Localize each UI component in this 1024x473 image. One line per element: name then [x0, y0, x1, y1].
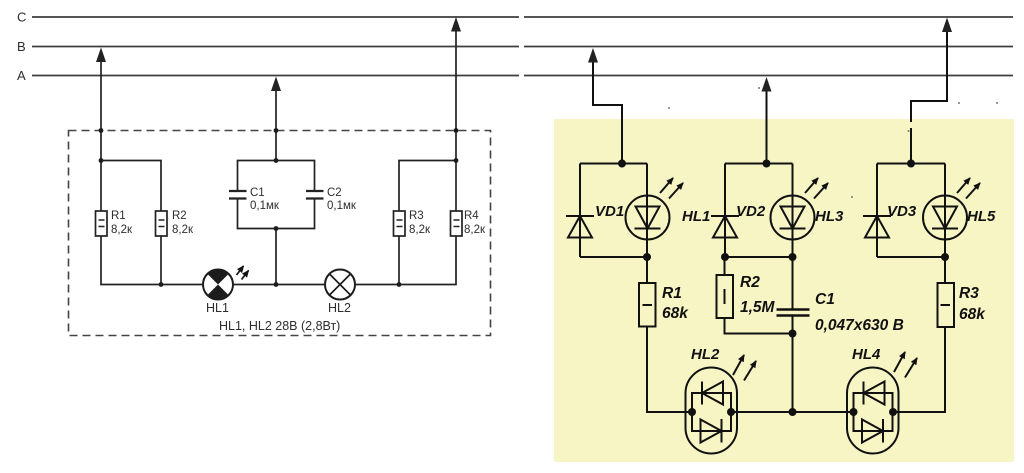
- svg-text:0,047x630 В: 0,047x630 В: [815, 317, 904, 334]
- wire HL3 branch: [792, 164, 794, 258]
- node dot feed 2: [763, 160, 771, 168]
- yellow panel of right schematic: [554, 119, 1014, 462]
- resistor R2 8,2k: [156, 211, 168, 236]
- dashed enclosure box: [69, 131, 491, 336]
- svg-text:R2: R2: [740, 274, 760, 291]
- svg-text:8,2к: 8,2к: [464, 224, 486, 236]
- arrowhead to phase C: [451, 17, 461, 32]
- wire bottom bus: [731, 411, 853, 413]
- wire top rail section 1: [580, 163, 647, 165]
- node dot HL2 right: [727, 408, 735, 416]
- wire phase B left: [32, 46, 519, 48]
- wire tap B phase (right): [593, 59, 622, 164]
- node dot C1 bus: [789, 408, 797, 416]
- arrowhead to phase B: [96, 48, 106, 63]
- wire phase C left: [32, 16, 519, 18]
- wire bottom rail section 3: [877, 256, 945, 258]
- wire R1 branch vertical: [100, 161, 102, 212]
- diode VD1: [566, 216, 594, 238]
- svg-text:C1: C1: [250, 187, 265, 199]
- svg-text:0,1мк: 0,1мк: [327, 200, 357, 212]
- svg-text:C1: C1: [815, 291, 835, 308]
- svg-text:C2: C2: [327, 187, 342, 199]
- resistor R1 8,2k: [96, 211, 108, 236]
- svg-text:0,1мк: 0,1мк: [250, 200, 280, 212]
- svg-text:HL3: HL3: [815, 208, 844, 225]
- node dot feed 1: [618, 160, 626, 168]
- svg-text:R1: R1: [662, 285, 682, 302]
- wire center tap down to lamps: [275, 229, 277, 285]
- wire phase C right: [524, 16, 1013, 18]
- svg-text:HL5: HL5: [967, 208, 996, 225]
- node dot capacitor bottom: [274, 226, 279, 231]
- resistor R3 68k: [944, 257, 946, 283]
- wire bottom rail section 2: [725, 256, 793, 258]
- svg-text:R3: R3: [409, 210, 424, 222]
- svg-text:8,2к: 8,2к: [111, 224, 133, 236]
- LED HL5: [923, 178, 980, 240]
- wire R4 branch vertical: [455, 161, 457, 212]
- paper specks: [668, 87, 998, 198]
- svg-text:HL1: HL1: [682, 208, 710, 225]
- LED HL1: [626, 178, 684, 240]
- wire tap A phase (left middle): [275, 89, 277, 161]
- node dot R3/R4 branch: [454, 158, 459, 163]
- wire tap C phase (right): [911, 29, 947, 122]
- resistor R2 1,5M: [724, 257, 726, 275]
- wire HL1 branch: [646, 164, 648, 258]
- node dot R2 top: [721, 253, 729, 261]
- arrowhead to phase A right: [762, 77, 772, 92]
- wire R3 to bottom: [398, 236, 400, 285]
- node dot HL2 left: [688, 408, 696, 416]
- svg-text:8,2к: 8,2к: [409, 224, 431, 236]
- svg-text:R1: R1: [111, 210, 126, 222]
- node dot C1 top: [789, 253, 797, 261]
- svg-text:VD2: VD2: [736, 203, 766, 220]
- arrowhead to phase B right: [588, 48, 598, 63]
- wire capacitor bracket bottom: [238, 199, 315, 229]
- capacitor C1 0,047x630: [792, 257, 794, 309]
- node dot R3 bottom: [397, 282, 402, 287]
- junction dots right: [618, 160, 949, 417]
- svg-text:68k: 68k: [959, 306, 986, 323]
- lamp HL1 (blinking indicator): [203, 270, 233, 300]
- wire phase A right: [524, 75, 1013, 77]
- section 1 rails and branches: [580, 164, 945, 258]
- capacitor C2 0,1mk: [306, 190, 324, 192]
- wire VD1 branch: [579, 164, 581, 258]
- arrowhead to phase C right: [942, 18, 952, 33]
- resistor R3 8,2k: [394, 211, 406, 236]
- svg-text:R4: R4: [464, 210, 479, 222]
- wire branch to R2: [101, 161, 161, 212]
- svg-text:HL2: HL2: [328, 301, 351, 315]
- svg-text:R3: R3: [959, 285, 979, 302]
- node dot R1 top: [643, 253, 651, 261]
- node dot HL4 right: [889, 408, 897, 416]
- node dot B tap on dashed border: [99, 128, 104, 133]
- svg-text:VD3: VD3: [887, 203, 917, 220]
- node dot R3 top: [941, 253, 949, 261]
- wire tap C phase (left right): [455, 29, 457, 161]
- wire R1 to bottom: [101, 236, 203, 285]
- diode VD3: [863, 216, 891, 238]
- wire phase B right: [524, 46, 1013, 48]
- svg-text:B: B: [17, 39, 26, 54]
- svg-text:1,5M: 1,5M: [740, 299, 776, 316]
- svg-text:VD1: VD1: [595, 203, 624, 220]
- svg-text:A: A: [17, 68, 26, 83]
- node dot R2/C1 bottom: [789, 330, 797, 338]
- LED pair HL2: [686, 355, 757, 454]
- wire capacitor bracket top: [238, 161, 315, 192]
- resistor R4 8,2k: [451, 211, 463, 236]
- LED pair HL4: [847, 352, 917, 454]
- wire branch to R3: [399, 161, 456, 212]
- svg-text:HL1, HL2 28В (2,8Вт): HL1, HL2 28В (2,8Вт): [219, 319, 340, 333]
- diode VD2: [711, 216, 739, 238]
- node dot A tap on dashed border: [274, 128, 279, 133]
- svg-text:8,2к: 8,2к: [172, 224, 194, 236]
- arrowhead to phase A: [271, 77, 281, 92]
- wire bottom rail section 1: [580, 256, 647, 258]
- wire between lamps: [233, 284, 325, 286]
- wire phase A left: [32, 75, 519, 77]
- svg-text:HL2: HL2: [691, 346, 720, 363]
- wire tap C continued: [910, 128, 912, 164]
- junction dots left: [99, 128, 459, 287]
- svg-text:C: C: [17, 10, 26, 25]
- node dot capacitor top: [274, 158, 279, 163]
- resistor R1 68k: [646, 257, 648, 283]
- node dot HL4 left: [850, 408, 858, 416]
- wire R2 to bottom: [160, 236, 162, 285]
- wire VD2 branch: [724, 164, 726, 258]
- svg-text:R2: R2: [172, 210, 187, 222]
- svg-text:HL1: HL1: [206, 301, 229, 315]
- svg-text:68k: 68k: [662, 305, 689, 322]
- node dot R1/R2 branch: [99, 158, 104, 163]
- wire HL5 branch: [944, 164, 946, 258]
- wire R4 to bottom: [355, 236, 456, 285]
- node dot R2 bottom: [159, 282, 164, 287]
- lamp HL2: [325, 270, 355, 300]
- wire tap A phase (right): [766, 89, 768, 164]
- LED HL3: [771, 178, 829, 240]
- wire VD3 branch: [876, 164, 878, 258]
- wire top rail section 3: [877, 163, 945, 165]
- svg-text:HL4: HL4: [852, 346, 881, 363]
- node dot center bottom: [274, 282, 279, 287]
- capacitor C1 0,1mk: [229, 190, 247, 192]
- wire top rail section 2: [725, 163, 793, 165]
- node dot feed 3: [907, 160, 915, 168]
- node dot C tap on dashed border: [454, 128, 459, 133]
- wire tap B phase (left): [100, 59, 102, 161]
